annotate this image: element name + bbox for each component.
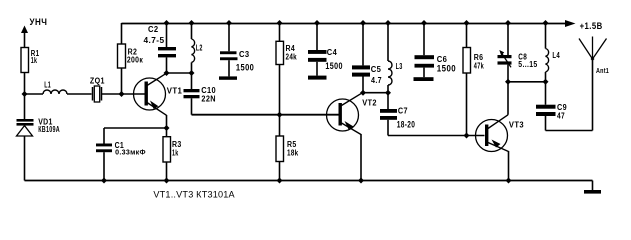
svg-text:L1: L1 xyxy=(44,81,51,90)
varicap VD1 xyxy=(17,118,61,181)
node +1.5V arrow xyxy=(565,20,576,27)
node R6-base junction xyxy=(464,133,470,139)
wire bottom ground rail xyxy=(25,180,593,182)
svg-text:1500: 1500 xyxy=(325,61,343,71)
inductor L2 xyxy=(192,23,203,73)
svg-text:R5: R5 xyxy=(287,140,297,149)
svg-text:C7: C7 xyxy=(398,107,408,116)
capacitor C2 xyxy=(144,23,177,73)
node C8-L4 junction xyxy=(505,79,511,85)
crystal ZQ1 xyxy=(90,76,105,102)
resistor R1 xyxy=(21,48,40,73)
wire R1 to node A xyxy=(24,73,26,120)
capacitor C9 xyxy=(536,82,567,131)
node base VT1 junction xyxy=(119,91,125,97)
wire C9 to antenna xyxy=(546,59,593,131)
svg-text:C4: C4 xyxy=(327,48,337,57)
inductor L4 xyxy=(546,23,561,82)
node rail-L4 junction xyxy=(543,20,549,26)
capacitor C3 xyxy=(219,23,254,80)
wire base bus to VT2 xyxy=(192,114,339,116)
node C5-VT2 collector junction xyxy=(360,90,366,96)
svg-text:L4: L4 xyxy=(552,51,560,60)
trimmer capacitor C8 xyxy=(498,23,538,82)
inductor L1 xyxy=(25,81,92,94)
svg-text:C1: C1 xyxy=(115,141,125,150)
node rail-C6 junction xyxy=(421,20,427,26)
svg-text:24k: 24k xyxy=(286,52,298,61)
node A junction xyxy=(22,91,28,97)
ground symbol xyxy=(584,181,601,194)
wire C8 node down to VT3 collector xyxy=(507,82,509,115)
svg-text:1500: 1500 xyxy=(437,63,456,73)
transistor VT3 xyxy=(476,115,525,181)
resistor R5 xyxy=(276,136,299,181)
node rail-R4 junction xyxy=(277,20,283,26)
svg-text:5...15: 5...15 xyxy=(518,60,537,69)
node rail-L3 junction xyxy=(385,20,391,26)
svg-text:47: 47 xyxy=(557,112,565,121)
wire C8 node to L4 node xyxy=(508,81,546,83)
wire ZQ1 to VT1 base xyxy=(102,93,145,95)
node rail-L2 junction xyxy=(189,20,195,26)
node rail-C2 junction xyxy=(164,20,170,26)
capacitor C5 xyxy=(352,23,382,93)
inductor L3 xyxy=(388,23,403,93)
capacitor C6 xyxy=(414,23,457,81)
svg-text:200к: 200к xyxy=(127,55,144,64)
node rail-C5 junction xyxy=(360,20,366,26)
node R4-R5-bus junction xyxy=(277,112,283,118)
svg-text:C2: C2 xyxy=(148,25,159,34)
svg-text:C5: C5 xyxy=(371,65,382,74)
resistor R2 xyxy=(118,23,144,94)
node UNCH input arrow xyxy=(21,26,28,48)
svg-text:1k: 1k xyxy=(31,56,38,65)
node rail-C3 junction xyxy=(226,20,232,26)
node rail-C8 junction xyxy=(505,20,511,26)
node rail-R6 junction xyxy=(464,20,470,26)
svg-text:1500: 1500 xyxy=(236,63,254,73)
svg-text:ZQ1: ZQ1 xyxy=(90,76,105,85)
capacitor C1 xyxy=(96,128,167,181)
svg-text:47k: 47k xyxy=(474,61,484,70)
svg-text:VT1: VT1 xyxy=(167,86,183,95)
node rail-C4 junction xyxy=(314,20,320,26)
node emitter VT1-R3-C1 junction xyxy=(164,125,170,131)
wire node to L2 bottom xyxy=(167,72,192,74)
transistor VT2 xyxy=(327,93,378,181)
node C2-L2-collector junction xyxy=(164,70,170,76)
resistor R4 xyxy=(276,23,297,136)
capacitor C10 xyxy=(184,73,217,115)
transistor VT1 xyxy=(134,73,183,128)
svg-text:22N: 22N xyxy=(201,94,216,103)
svg-text:VT3: VT3 xyxy=(509,120,524,129)
wire collector node to L3 xyxy=(363,92,388,94)
svg-text:+1.5В: +1.5В xyxy=(580,21,603,31)
svg-text:4.7: 4.7 xyxy=(371,76,382,85)
svg-text:4.7-5: 4.7-5 xyxy=(144,36,165,45)
svg-text:L3: L3 xyxy=(396,62,403,71)
svg-text:УНЧ: УНЧ xyxy=(30,17,48,27)
wire top supply rail xyxy=(122,23,568,25)
svg-text:VT1..VT3 КТ3101А: VT1..VT3 КТ3101А xyxy=(153,189,235,199)
svg-text:КВ109А: КВ109А xyxy=(38,125,60,134)
svg-text:Ant1: Ant1 xyxy=(596,68,609,75)
svg-text:L2: L2 xyxy=(196,43,203,52)
svg-text:18-20: 18-20 xyxy=(397,119,416,129)
svg-text:C3: C3 xyxy=(239,50,250,59)
capacitor C4 xyxy=(308,23,343,80)
node ground rail junctions xyxy=(101,178,512,184)
svg-text:0.33мкФ: 0.33мкФ xyxy=(115,150,146,157)
antenna Ant1 xyxy=(579,37,609,75)
svg-text:1k: 1k xyxy=(172,149,179,158)
svg-text:R3: R3 xyxy=(172,140,182,149)
svg-text:18k: 18k xyxy=(287,149,299,158)
svg-text:VT2: VT2 xyxy=(362,99,377,108)
resistor R6 xyxy=(463,23,484,136)
resistor R3 xyxy=(163,128,182,181)
wire C7 to VT3 base xyxy=(388,135,485,137)
capacitor C7 xyxy=(380,93,415,136)
